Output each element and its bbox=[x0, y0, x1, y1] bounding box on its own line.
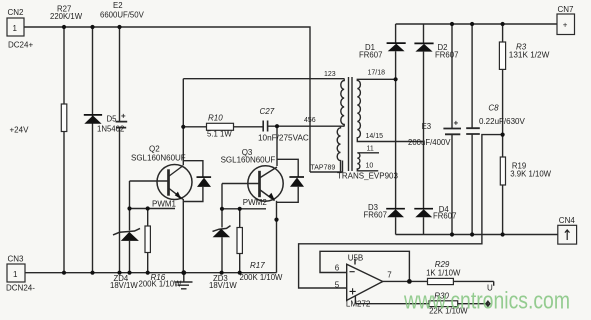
svg-text:CN3: CN3 bbox=[8, 255, 25, 264]
svg-text:R16: R16 bbox=[151, 273, 166, 282]
svg-text:1K 1/10W: 1K 1/10W bbox=[426, 269, 461, 278]
svg-text:1: 1 bbox=[13, 270, 18, 279]
svg-text:FR607: FR607 bbox=[359, 51, 382, 60]
svg-text:www.cntronics.com: www.cntronics.com bbox=[403, 288, 570, 315]
svg-text:11: 11 bbox=[367, 146, 374, 153]
svg-text:1N5402: 1N5402 bbox=[97, 125, 124, 134]
svg-text:+24V: +24V bbox=[10, 126, 30, 135]
svg-text:LM272: LM272 bbox=[346, 300, 371, 309]
svg-text:10: 10 bbox=[366, 163, 374, 170]
svg-text:+: + bbox=[563, 21, 568, 30]
svg-text:18V/1W: 18V/1W bbox=[110, 281, 138, 290]
svg-text:5.1 1W: 5.1 1W bbox=[207, 130, 232, 139]
svg-text:FR607: FR607 bbox=[433, 212, 456, 221]
svg-text:1: 1 bbox=[13, 24, 18, 33]
svg-text:5: 5 bbox=[335, 281, 340, 290]
svg-text:C27: C27 bbox=[260, 107, 275, 116]
svg-text:14/15: 14/15 bbox=[366, 133, 384, 140]
svg-text:200uF/400V: 200uF/400V bbox=[408, 138, 451, 147]
svg-text:E3: E3 bbox=[422, 122, 432, 131]
svg-text:6600UF/50V: 6600UF/50V bbox=[100, 11, 145, 20]
svg-text:E2: E2 bbox=[113, 1, 123, 10]
svg-text:3.9K 1/10W: 3.9K 1/10W bbox=[510, 170, 551, 179]
svg-text:SGL160N60UF: SGL160N60UF bbox=[221, 156, 276, 165]
svg-text:FR607: FR607 bbox=[364, 211, 387, 220]
svg-text:DCN24-: DCN24- bbox=[6, 284, 35, 293]
svg-text:DC24+: DC24+ bbox=[8, 41, 33, 50]
svg-text:CN4: CN4 bbox=[559, 216, 576, 225]
svg-text:R10: R10 bbox=[208, 114, 223, 123]
svg-text:PWM2: PWM2 bbox=[243, 198, 268, 207]
svg-text:10nF/275VAC: 10nF/275VAC bbox=[258, 134, 309, 143]
svg-text:456: 456 bbox=[304, 117, 316, 124]
svg-text:7: 7 bbox=[387, 271, 392, 280]
svg-text:200K 1/10W: 200K 1/10W bbox=[240, 273, 284, 282]
svg-text:123: 123 bbox=[324, 71, 336, 78]
svg-text:0.22uF/630V: 0.22uF/630V bbox=[479, 117, 525, 126]
svg-text:131K 1/2W: 131K 1/2W bbox=[509, 51, 550, 60]
svg-text:18V/1W: 18V/1W bbox=[209, 281, 237, 290]
svg-text:PWM1: PWM1 bbox=[152, 200, 177, 209]
svg-text:FR607: FR607 bbox=[435, 51, 458, 60]
svg-text:TRANS_EVP903: TRANS_EVP903 bbox=[337, 172, 398, 181]
svg-text:CN2: CN2 bbox=[8, 8, 25, 17]
svg-text:R3: R3 bbox=[516, 43, 527, 52]
svg-text:C8: C8 bbox=[488, 104, 499, 113]
svg-text:R29: R29 bbox=[435, 260, 450, 269]
svg-text:U5B: U5B bbox=[348, 254, 364, 263]
svg-text:Q2: Q2 bbox=[149, 145, 160, 154]
svg-text:D5: D5 bbox=[107, 115, 118, 124]
svg-text:TAP789: TAP789 bbox=[311, 165, 336, 172]
svg-text:SGL160N60UF: SGL160N60UF bbox=[131, 154, 186, 163]
svg-text:220K/1W: 220K/1W bbox=[50, 12, 83, 21]
svg-text:R17: R17 bbox=[250, 261, 265, 270]
svg-text:17/18: 17/18 bbox=[368, 70, 386, 77]
svg-text:CN7: CN7 bbox=[558, 5, 575, 14]
svg-text:6: 6 bbox=[335, 264, 340, 273]
